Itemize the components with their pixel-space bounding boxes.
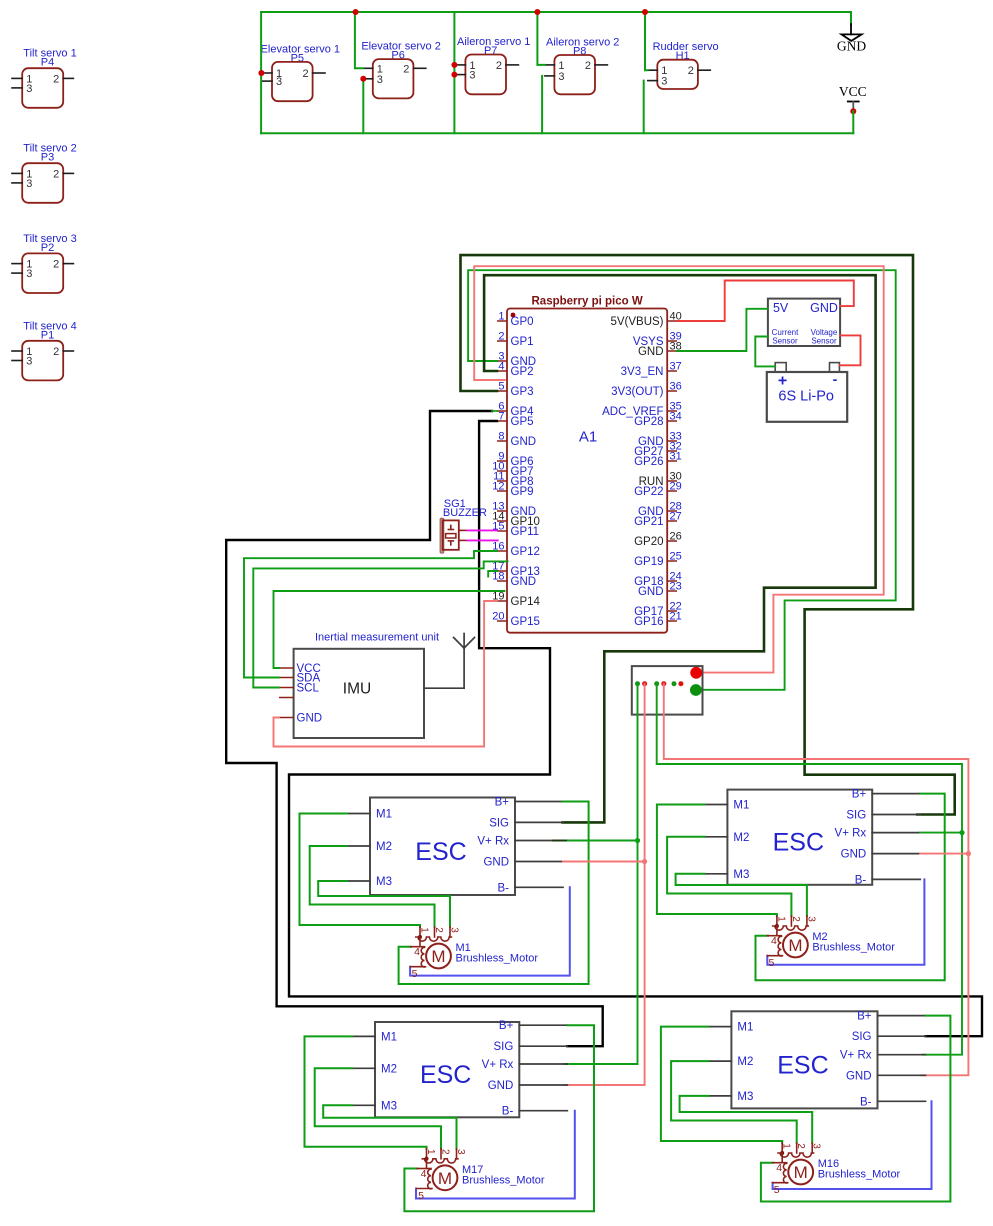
pin 24 GP18 (A1 right) bbox=[667, 580, 677, 582]
svg-text:V+ Rx: V+ Rx bbox=[477, 836, 509, 848]
wire ESC3 M2 to motor coil2 bbox=[315, 1068, 441, 1149]
wire ESC1 M3 to motor coil3 bbox=[318, 881, 450, 927]
wire ESC4 M1 to motor coil1 bbox=[661, 1027, 782, 1143]
svg-text:3: 3 bbox=[469, 70, 475, 82]
wire GND(pin3) to LED-board green (green nest) bbox=[468, 270, 896, 690]
connector P2 Tilt servo 3 bbox=[12, 233, 77, 293]
svg-text:M3: M3 bbox=[381, 1100, 397, 1112]
svg-text:GND: GND bbox=[483, 857, 509, 869]
pin 22 GP17 (A1 right) bbox=[667, 610, 677, 612]
junction bbox=[451, 62, 457, 68]
pin 2 GP1 (A1 left) bbox=[497, 340, 507, 342]
wire ESC4 M3 to motor coil3 bbox=[680, 1096, 813, 1143]
connector P7 Aileron servo 1 bbox=[456, 36, 530, 94]
pin 7 GP5 (A1 left) bbox=[497, 420, 507, 422]
svg-text:SIG: SIG bbox=[846, 810, 866, 822]
svg-text:GND: GND bbox=[488, 1080, 514, 1092]
svg-text:1: 1 bbox=[419, 927, 430, 933]
pin 9 GP6 (A1 left) bbox=[497, 460, 507, 462]
pin 13 GND (A1 left) bbox=[497, 510, 507, 512]
pin 21 GP16 (A1 right) bbox=[667, 620, 677, 622]
svg-text:Brushless_Motor: Brushless_Motor bbox=[456, 953, 539, 965]
wire LED red1 to ESC1/ESC3 GND rail bbox=[564, 684, 644, 1085]
svg-text:SCL: SCL bbox=[297, 682, 320, 694]
svg-text:3: 3 bbox=[455, 1149, 466, 1155]
svg-text:3: 3 bbox=[661, 76, 667, 88]
pin 19 GP14 (A1 left) bbox=[497, 600, 507, 602]
pin 26 GP20 (A1 right) bbox=[667, 540, 677, 542]
pin 8 GND (A1 left) bbox=[497, 440, 507, 442]
svg-text:34: 34 bbox=[670, 411, 682, 423]
svg-text:M3: M3 bbox=[376, 876, 392, 888]
svg-text:2: 2 bbox=[53, 73, 59, 85]
junction bbox=[534, 9, 540, 15]
wire ESC2 M1 to motor coil1 bbox=[657, 805, 777, 917]
pin 14 GP10 (A1 left) bbox=[497, 520, 507, 522]
svg-text:5: 5 bbox=[774, 1184, 780, 1196]
pin 16 GP12 (A1 left) bbox=[497, 550, 507, 552]
pin 1 GP0 (A1 left) bbox=[497, 320, 507, 322]
svg-text:5: 5 bbox=[412, 968, 418, 980]
svg-text:SIG: SIG bbox=[489, 817, 509, 829]
svg-text:IMU: IMU bbox=[343, 681, 371, 698]
svg-text:B-: B- bbox=[860, 1096, 872, 1108]
motor M17 Brushless_Motor bbox=[417, 1149, 545, 1202]
svg-text:18: 18 bbox=[492, 571, 504, 583]
svg-text:M2: M2 bbox=[737, 1056, 753, 1068]
connector P6 Elevator servo 2 bbox=[361, 41, 440, 99]
module U? 5V current/voltage sensor bbox=[768, 299, 840, 346]
pin 27 GP21 (A1 right) bbox=[667, 520, 677, 522]
svg-text:GND: GND bbox=[810, 301, 838, 315]
pin 36 3V3(OUT) (A1 right) bbox=[667, 390, 677, 392]
svg-text:M: M bbox=[438, 1169, 452, 1188]
svg-text:36: 36 bbox=[670, 381, 682, 393]
wire servo GND top bus bbox=[261, 11, 851, 13]
wire LED green2 to ESC2/ESC4 V+Rx rail bbox=[657, 684, 962, 1055]
svg-text:V+ Rx: V+ Rx bbox=[835, 828, 867, 840]
wire ESC4 M2 to motor coil2 bbox=[671, 1061, 797, 1143]
svg-text:Sensor: Sensor bbox=[772, 337, 798, 346]
svg-text:GP9: GP9 bbox=[511, 486, 534, 498]
buzzer SG1 BUZZER bbox=[440, 498, 487, 553]
svg-text:2: 2 bbox=[53, 259, 59, 271]
svg-text:GP15: GP15 bbox=[511, 616, 540, 628]
wire ESC2 V+Rx tail (green) bbox=[920, 832, 962, 834]
pin 30 RUN (A1 right) bbox=[667, 480, 677, 482]
svg-text:2: 2 bbox=[688, 65, 694, 77]
svg-text:20: 20 bbox=[492, 611, 504, 623]
pin 25 GP19 (A1 right) bbox=[667, 560, 677, 562]
svg-text:M1: M1 bbox=[733, 800, 749, 812]
svg-text:2: 2 bbox=[585, 60, 591, 72]
esc ESC2 block bbox=[704, 789, 920, 887]
junction bbox=[360, 76, 366, 82]
svg-text:2: 2 bbox=[53, 346, 59, 358]
svg-text:GND: GND bbox=[638, 346, 664, 358]
svg-text:M2: M2 bbox=[376, 841, 392, 853]
svg-text:Inertial measurement unit: Inertial measurement unit bbox=[315, 632, 439, 644]
svg-text:ESC: ESC bbox=[415, 838, 466, 866]
svg-text:-: - bbox=[833, 371, 838, 387]
svg-text:ESC: ESC bbox=[420, 1061, 471, 1089]
pin 29 GP22 (A1 right) bbox=[667, 490, 677, 492]
wire P5 pins to buses bbox=[260, 12, 262, 133]
connector P1 Tilt servo 4 bbox=[12, 320, 77, 380]
connector H1 Rudder servo bbox=[648, 41, 719, 89]
svg-text:6S Li-Po: 6S Li-Po bbox=[778, 389, 834, 405]
wire 5V(VBUS) to sensor GND (red) bbox=[677, 281, 854, 322]
wire ESC1 GND tail (salmon) bbox=[563, 861, 645, 863]
wire SG1 pin2 stub (magenta) bbox=[467, 539, 497, 541]
esc ESC4 block bbox=[708, 1011, 925, 1109]
wire P6 pin3 to bottom bus bbox=[362, 79, 364, 133]
svg-text:GP1: GP1 bbox=[511, 336, 534, 348]
wire IMU VCC feed (green, dangling near pin19) bbox=[274, 591, 505, 668]
svg-text:V+ Rx: V+ Rx bbox=[840, 1050, 872, 1062]
pin 35 ADC_VREF (A1 right) bbox=[667, 410, 677, 412]
pin 17 GP13 (A1 left) bbox=[497, 570, 507, 572]
wire ESC4 B+ to motor pin4 (green) bbox=[761, 1016, 951, 1202]
antenna of IMU bbox=[424, 687, 464, 689]
svg-text:P3: P3 bbox=[41, 152, 54, 164]
svg-text:SIG: SIG bbox=[852, 1031, 872, 1043]
svg-text:7: 7 bbox=[498, 411, 504, 423]
wire ESC3 B+ to motor pin4 (green) bbox=[404, 1025, 594, 1211]
connector P4 Tilt servo 1 bbox=[12, 48, 77, 108]
wire ESC3 M3 to motor coil3 bbox=[323, 1105, 456, 1149]
pin 37 3V3_EN (A1 right) bbox=[667, 370, 677, 372]
wire ESC3 B- to motor pin5 (blue) bbox=[416, 1111, 575, 1199]
svg-text:2: 2 bbox=[496, 60, 502, 72]
svg-text:5V(VBUS): 5V(VBUS) bbox=[610, 316, 663, 328]
svg-text:2: 2 bbox=[498, 331, 504, 343]
svg-text:2: 2 bbox=[440, 1149, 451, 1155]
wire GP12(pin16) to IMU SDA (green) bbox=[244, 551, 497, 678]
svg-text:P1: P1 bbox=[41, 329, 54, 341]
connector P8 Aileron servo 2 bbox=[545, 37, 619, 95]
pin 15 GP11 (A1 left) bbox=[497, 530, 507, 532]
svg-text:4: 4 bbox=[771, 935, 777, 947]
wire ESC4 B- to motor pin5 (blue) bbox=[773, 1101, 932, 1189]
wire IMU SCL feed (green, dangling at pico edge) bbox=[253, 561, 507, 687]
svg-text:3: 3 bbox=[26, 83, 32, 95]
svg-text:GND: GND bbox=[297, 713, 323, 725]
svg-text:3V3(OUT): 3V3(OUT) bbox=[611, 386, 664, 398]
svg-text:+: + bbox=[778, 373, 787, 390]
svg-text:1: 1 bbox=[775, 916, 786, 922]
wire LED red2 to ESC2/ESC4 GND rail bbox=[664, 684, 969, 1076]
svg-text:27: 27 bbox=[670, 511, 682, 523]
wire ESC1 V+Rx tail (green) bbox=[566, 840, 638, 842]
wire P7 pins to buses bbox=[453, 12, 455, 133]
svg-text:M2: M2 bbox=[381, 1063, 397, 1075]
wire pico GND38 to sensor 5V (green) bbox=[677, 309, 768, 351]
wire SG1 pin1 to GP11 (magenta) bbox=[467, 529, 497, 531]
pin 11 GP8 (A1 left) bbox=[497, 480, 507, 482]
pin 18 GND (A1 left) bbox=[497, 580, 507, 582]
wire battery - to voltage sensor (red) bbox=[839, 335, 860, 365]
pin 39 VSYS (A1 right) bbox=[667, 340, 677, 342]
wire P6 pin1 from top bus bbox=[355, 12, 363, 68]
svg-text:B+: B+ bbox=[857, 1011, 872, 1023]
wire GP14(pin19) to IMU GND (salmon) bbox=[274, 601, 498, 747]
svg-text:M3: M3 bbox=[733, 869, 749, 881]
svg-text:GP19: GP19 bbox=[634, 556, 663, 568]
svg-text:M: M bbox=[794, 1163, 808, 1182]
svg-text:4: 4 bbox=[414, 946, 420, 958]
svg-text:Brushless_Motor: Brushless_Motor bbox=[812, 942, 895, 954]
wire battery + to current sensor (green) bbox=[755, 337, 775, 367]
battery BT1 6S Li-Po bbox=[767, 363, 847, 422]
junction GND ESC1 bbox=[642, 859, 647, 864]
svg-text:2: 2 bbox=[302, 68, 308, 80]
mcu A1 Raspberry pi pico W body bbox=[507, 296, 667, 633]
svg-text:3: 3 bbox=[805, 916, 816, 922]
svg-text:3: 3 bbox=[377, 74, 383, 86]
wire ESC1 B+ to motor pin4 (green) bbox=[399, 802, 589, 985]
svg-text:3: 3 bbox=[811, 1143, 822, 1149]
svg-text:GP3: GP3 bbox=[511, 386, 534, 398]
wire ESC2 B+ to motor pin4 (green) bbox=[756, 794, 945, 981]
svg-text:3: 3 bbox=[26, 356, 32, 368]
svg-text:4: 4 bbox=[421, 1168, 427, 1180]
wire ESC2 M3 to motor coil3 bbox=[676, 874, 807, 916]
svg-text:21: 21 bbox=[670, 611, 682, 623]
wire ESC2 B- to motor pin5 (blue) bbox=[767, 879, 924, 964]
svg-text:GP2: GP2 bbox=[511, 366, 534, 378]
pin 34 GP28 (A1 right) bbox=[667, 420, 677, 422]
svg-text:2: 2 bbox=[795, 1143, 806, 1149]
svg-text:GND: GND bbox=[511, 436, 537, 448]
svg-text:GP12: GP12 bbox=[511, 546, 540, 558]
svg-text:M1: M1 bbox=[376, 809, 392, 821]
svg-text:A1: A1 bbox=[579, 429, 597, 446]
svg-text:GND: GND bbox=[638, 586, 664, 598]
pin 6 GP4 (A1 left) bbox=[497, 410, 507, 412]
pin 28 GND (A1 right) bbox=[667, 510, 677, 512]
wire ESC1 M1 to motor coil1 bbox=[300, 814, 421, 928]
wire LED-board red feed (salmon nest, dangling at pico) bbox=[474, 266, 884, 672]
wire GP5(pin7) to ESC4 SIG (black) bbox=[289, 421, 982, 1036]
connector P5 Elevator servo 1 bbox=[261, 43, 340, 101]
svg-text:3V3_EN: 3V3_EN bbox=[621, 366, 664, 378]
junction V+Rx ESC1 bbox=[635, 838, 640, 843]
svg-text:GP20: GP20 bbox=[634, 536, 663, 548]
svg-text:V+ Rx: V+ Rx bbox=[482, 1059, 514, 1071]
motor M2 Brushless_Motor bbox=[767, 916, 895, 969]
wire GP2(pin4) to ESC1 SIG (inner dark green) bbox=[484, 275, 875, 822]
svg-text:ESC: ESC bbox=[773, 829, 824, 857]
svg-text:23: 23 bbox=[670, 581, 682, 593]
svg-text:B+: B+ bbox=[499, 1020, 514, 1032]
svg-text:GP28: GP28 bbox=[634, 416, 663, 428]
svg-text:M: M bbox=[788, 936, 802, 955]
svg-text:GND: GND bbox=[511, 576, 537, 588]
svg-text:GP21: GP21 bbox=[634, 516, 663, 528]
pin 10 GP7 (A1 left) bbox=[497, 470, 507, 472]
svg-text:12: 12 bbox=[492, 481, 504, 493]
wire GP3(pin5) to ESC2 SIG (outer dark green) bbox=[461, 255, 955, 814]
wire GP13(pin17) short green bbox=[488, 571, 497, 577]
pin 40 5V(VBUS) (A1 right) bbox=[667, 320, 677, 322]
svg-text:B+: B+ bbox=[495, 797, 510, 809]
pin 20 GP15 (A1 left) bbox=[497, 620, 507, 622]
wire ESC2 GND tail (salmon) bbox=[920, 853, 968, 855]
svg-text:2: 2 bbox=[403, 63, 409, 75]
esc ESC3 block bbox=[352, 1020, 567, 1118]
svg-text:37: 37 bbox=[670, 361, 682, 373]
svg-text:SIG: SIG bbox=[493, 1041, 513, 1053]
pin 32 GP27 (A1 right) bbox=[667, 450, 677, 452]
wire H1 pin3 to bottom bus bbox=[643, 81, 645, 134]
wire ESC2 M2 to motor coil2 bbox=[667, 837, 791, 916]
svg-text:BUZZER: BUZZER bbox=[443, 507, 487, 519]
svg-text:8: 8 bbox=[498, 431, 504, 443]
svg-text:M: M bbox=[431, 947, 445, 966]
svg-text:2: 2 bbox=[53, 168, 59, 180]
svg-text:Brushless_Motor: Brushless_Motor bbox=[462, 1174, 545, 1186]
svg-text:P2: P2 bbox=[41, 242, 54, 254]
svg-text:29: 29 bbox=[670, 481, 682, 493]
pin 31 GP26 (A1 right) bbox=[667, 460, 677, 462]
svg-text:GP11: GP11 bbox=[511, 526, 540, 538]
pin 23 GND (A1 right) bbox=[667, 590, 677, 592]
junction V+Rx ESC2 bbox=[959, 830, 964, 835]
svg-text:M1: M1 bbox=[381, 1031, 397, 1043]
imu module Inertial measurement unit bbox=[279, 632, 439, 739]
svg-text:1: 1 bbox=[425, 1149, 436, 1155]
svg-text:Raspberry pi pico W: Raspberry pi pico W bbox=[532, 296, 643, 308]
svg-text:4: 4 bbox=[498, 361, 504, 373]
svg-text:GND: GND bbox=[837, 39, 866, 54]
svg-text:GND: GND bbox=[841, 849, 867, 861]
junction bbox=[451, 72, 457, 78]
wire ESC3 M1 to motor coil1 bbox=[305, 1036, 427, 1148]
pin 3 GND (A1 left) bbox=[497, 360, 507, 362]
svg-text:2: 2 bbox=[433, 927, 444, 933]
wire H1 pin1 from top bus bbox=[645, 12, 648, 70]
svg-text:1: 1 bbox=[498, 311, 504, 323]
svg-text:31: 31 bbox=[670, 451, 682, 463]
junction bbox=[642, 9, 648, 15]
svg-text:4: 4 bbox=[776, 1162, 782, 1174]
svg-text:25: 25 bbox=[670, 551, 682, 563]
svg-text:3: 3 bbox=[276, 76, 282, 88]
pin 5 GP3 (A1 left) bbox=[497, 390, 507, 392]
svg-text:GP14: GP14 bbox=[511, 596, 541, 608]
svg-text:VCC: VCC bbox=[839, 84, 867, 99]
svg-text:3: 3 bbox=[449, 927, 460, 933]
svg-text:GP0: GP0 bbox=[511, 316, 534, 328]
pin 38 GND (A1 right) bbox=[667, 350, 677, 352]
svg-text:B-: B- bbox=[855, 874, 867, 886]
motor M1 Brushless_Motor bbox=[410, 927, 538, 980]
svg-text:Sensor: Sensor bbox=[811, 337, 837, 346]
svg-text:5: 5 bbox=[768, 957, 774, 969]
svg-text:M1: M1 bbox=[737, 1022, 753, 1034]
svg-text:Brushless_Motor: Brushless_Motor bbox=[818, 1169, 901, 1181]
svg-text:B-: B- bbox=[502, 1106, 514, 1118]
svg-text:3: 3 bbox=[558, 71, 564, 83]
svg-text:GP16: GP16 bbox=[634, 616, 663, 628]
wire ESC1 B- to motor pin5 (blue) bbox=[410, 887, 570, 975]
svg-text:5: 5 bbox=[418, 1190, 424, 1202]
svg-text:1: 1 bbox=[781, 1143, 792, 1149]
connector P3 Tilt servo 2 bbox=[12, 143, 77, 203]
ground GND symbol bbox=[850, 12, 852, 24]
pin 33 GND (A1 right) bbox=[667, 440, 677, 442]
junction GND ESC2 bbox=[966, 851, 971, 856]
esc ESC1 block bbox=[347, 797, 563, 896]
wire LED green1 to ESC1/ESC3 V+Rx rail bbox=[564, 684, 637, 1064]
wire P8 pin3 to bottom bus bbox=[541, 76, 543, 133]
wire servo VCC bottom bus bbox=[261, 132, 853, 134]
svg-text:2: 2 bbox=[790, 916, 801, 922]
wire P8 pin1 from top bus bbox=[537, 12, 545, 65]
svg-text:3: 3 bbox=[26, 268, 32, 280]
svg-text:GP5: GP5 bbox=[511, 416, 534, 428]
svg-text:GP26: GP26 bbox=[634, 456, 663, 468]
svg-text:B+: B+ bbox=[852, 789, 867, 801]
svg-text:3: 3 bbox=[26, 178, 32, 190]
svg-text:5V: 5V bbox=[773, 301, 789, 315]
svg-text:GP22: GP22 bbox=[634, 486, 663, 498]
svg-text:ESC: ESC bbox=[777, 1051, 828, 1079]
svg-text:5: 5 bbox=[498, 381, 504, 393]
svg-text:M2: M2 bbox=[733, 832, 749, 844]
wire GP4(pin6) to ESC3 SIG (black) bbox=[226, 411, 603, 1046]
svg-text:P4: P4 bbox=[41, 57, 54, 69]
junction bbox=[353, 9, 359, 15]
pin 4 GP2 (A1 left) bbox=[497, 370, 507, 372]
svg-text:GND: GND bbox=[846, 1070, 872, 1082]
svg-text:B-: B- bbox=[498, 882, 510, 894]
svg-text:26: 26 bbox=[670, 531, 682, 543]
wire ESC1 M2 to motor coil2 bbox=[310, 846, 435, 927]
motor M16 Brushless_Motor bbox=[773, 1143, 901, 1196]
junction bbox=[258, 70, 264, 76]
svg-text:M3: M3 bbox=[737, 1091, 753, 1103]
receiver LED board bbox=[632, 666, 703, 715]
pin 12 GP9 (A1 left) bbox=[497, 490, 507, 492]
